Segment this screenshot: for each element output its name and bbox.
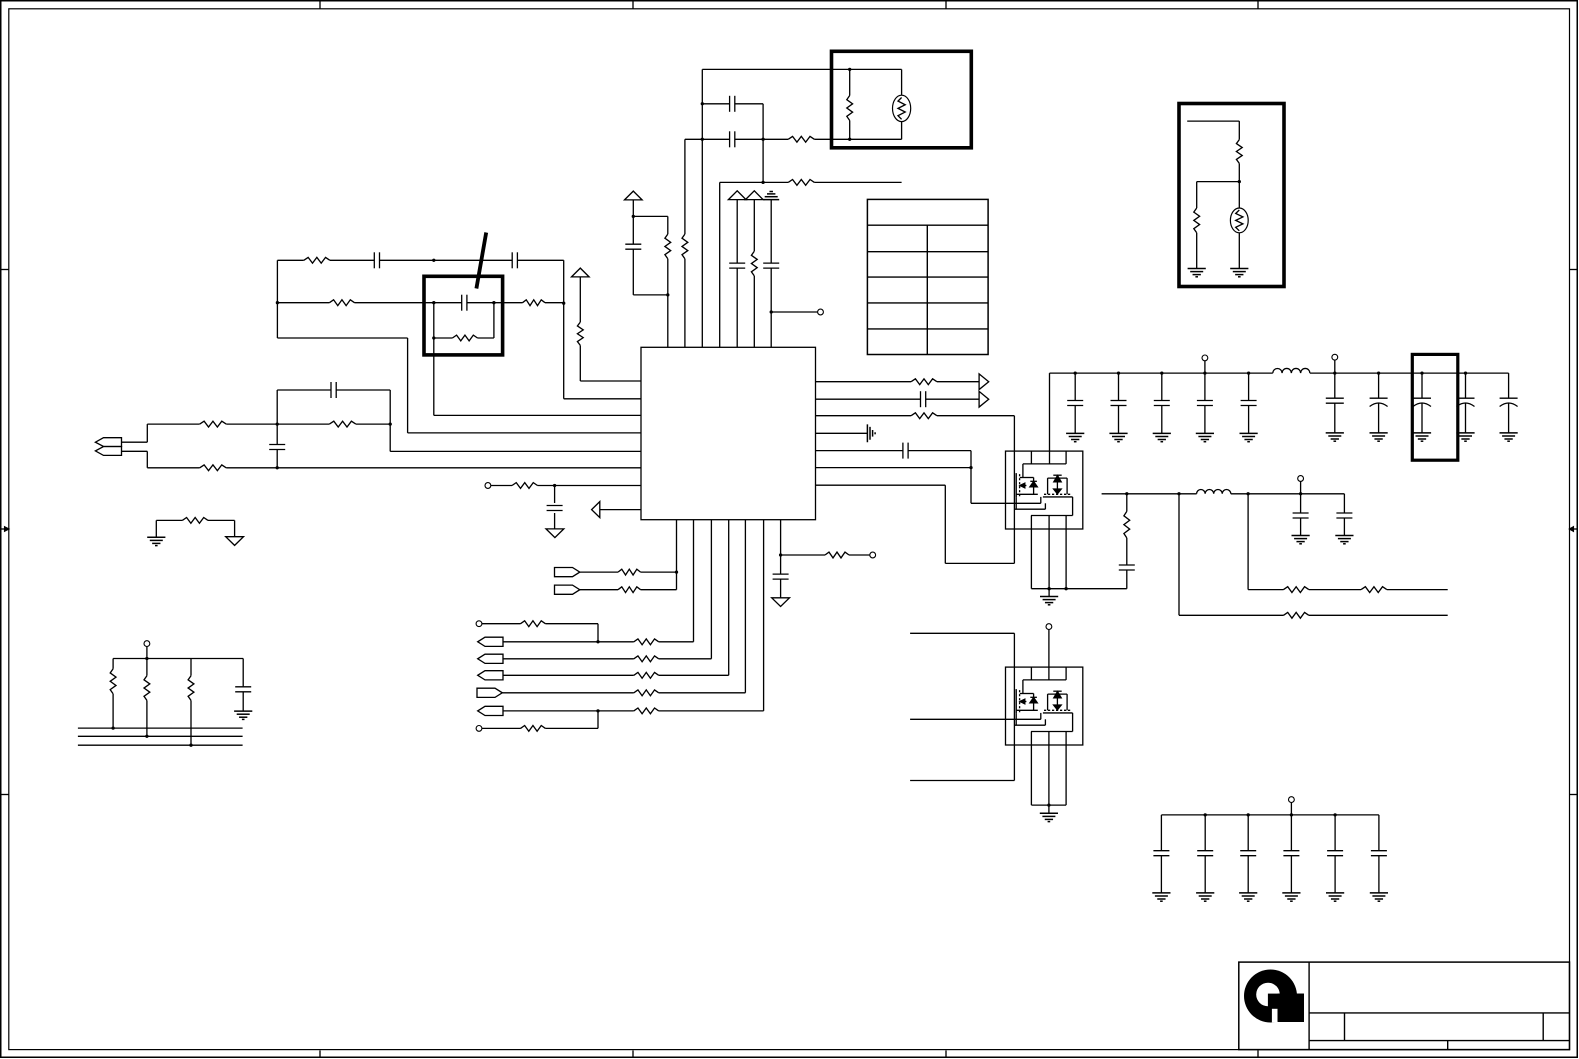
terminal TP2 <box>485 483 491 489</box>
wire IC bottom pin 5 <box>744 520 746 693</box>
node bank3-1 junction <box>1247 813 1250 816</box>
resistor R3 <box>763 136 850 142</box>
node AG junction <box>1047 803 1050 806</box>
node AK junction <box>1299 492 1302 495</box>
wire IC right pin 6 <box>816 467 972 469</box>
resistor R7 <box>1236 121 1242 182</box>
capacitor C6 <box>330 252 434 268</box>
capacitor C22 bank1 <box>1154 373 1170 433</box>
node AC junction <box>969 466 972 469</box>
ground G35 <box>1370 893 1388 901</box>
node U junction <box>145 657 148 660</box>
capacitor C10 <box>269 424 285 468</box>
antenna connector J1 <box>95 438 121 456</box>
ground G4 <box>147 537 165 545</box>
power rail 2 <box>1102 493 1197 495</box>
wire <box>910 632 1014 634</box>
wire <box>433 303 435 338</box>
ground G31 <box>1196 893 1214 901</box>
wire <box>633 215 668 217</box>
node bank1-4 junction <box>1247 371 1250 374</box>
node X junction <box>189 744 192 747</box>
ground G34 <box>1326 893 1344 901</box>
node bank3-0 junction <box>1204 813 1207 816</box>
wire IC bottom pin 1 <box>676 520 678 590</box>
wire <box>597 711 599 729</box>
node Q junction <box>276 422 279 425</box>
crystal Y1 <box>893 69 911 139</box>
resistor R8 <box>1194 182 1200 269</box>
wire <box>277 259 303 261</box>
capacitor C44 <box>1327 815 1343 893</box>
node AI junction <box>1177 492 1180 495</box>
wire IC left pin 1 <box>564 398 641 400</box>
signal flag NET1 <box>555 568 580 577</box>
capacitor C2 <box>702 96 763 112</box>
node R junction <box>389 422 392 425</box>
node AB junction <box>779 553 782 556</box>
node L junction <box>562 302 565 305</box>
capacitor C24 bank1 <box>1241 373 1257 433</box>
terminal TP3 <box>144 641 150 647</box>
node Z junction <box>596 640 599 643</box>
capacitor C1 <box>625 216 641 295</box>
highlight box (bold) <box>1412 354 1458 460</box>
capacitor C23 bank1 <box>1197 373 1213 433</box>
ground G2 <box>1188 269 1206 277</box>
wire <box>1187 120 1239 122</box>
resistor R28 <box>502 690 745 696</box>
capacitor C31 bank2 polarized <box>1413 373 1431 433</box>
wire crystal bottom <box>850 138 902 140</box>
signal flag NET7 <box>478 706 503 715</box>
capacitor C34 bank2 polarized <box>1500 373 1518 433</box>
node P junction <box>432 336 435 339</box>
ground G10 <box>1066 433 1084 441</box>
capacitor C11 <box>547 486 563 529</box>
wire crossing 2 <box>1013 633 1015 780</box>
ground G14 <box>1240 433 1258 441</box>
wire IC bottom pin 4 <box>728 520 730 676</box>
resistor R15 <box>277 421 390 427</box>
terminal TP1 <box>771 309 823 315</box>
power rail 3 <box>1161 814 1379 816</box>
resistor R34 <box>1124 494 1130 538</box>
capacitor C41 <box>1197 815 1213 893</box>
ground G8 <box>1040 805 1058 822</box>
capacitor C15 <box>816 443 972 468</box>
node bank1-2 junction <box>1160 371 1163 374</box>
node C junction <box>701 102 704 105</box>
wire <box>597 624 599 642</box>
wire <box>276 390 278 424</box>
terminal TP11 <box>1289 797 1295 815</box>
ground G6 sideways <box>816 424 876 442</box>
resistor R17 <box>491 483 555 489</box>
ground G20 <box>1326 433 1344 441</box>
node AJ junction <box>1246 492 1249 495</box>
resistor R23 <box>580 587 677 593</box>
terminal TP6 <box>870 552 876 558</box>
wire <box>1248 494 1283 590</box>
wire <box>122 424 148 442</box>
ground G12 <box>1153 433 1171 441</box>
wire IC top pin 1 <box>667 295 669 347</box>
resistor R14 <box>147 421 277 427</box>
wire <box>276 260 278 338</box>
wire IC top pin 7 <box>770 312 772 347</box>
MOSFET pair Q3/Q4 block <box>1006 667 1083 745</box>
MOSFET pair Q1/Q2 block <box>1006 451 1083 529</box>
wire IC right pin 7 <box>816 485 1015 563</box>
node A junction <box>632 215 635 218</box>
wire crystal top <box>702 68 901 70</box>
ground G3 <box>1230 269 1248 277</box>
wire <box>277 337 407 339</box>
node K junction <box>432 259 435 262</box>
wire <box>1049 373 1051 464</box>
node bank1-3 junction <box>1203 371 1206 374</box>
gnd flag AGND1 <box>546 529 564 538</box>
wire IC left pin 0 <box>580 380 641 382</box>
node bank3-3 junction <box>1333 813 1336 816</box>
capacitor C17 <box>1293 494 1309 536</box>
resistor R9 <box>304 257 330 263</box>
terminal TP4 <box>476 621 482 627</box>
signal flag NET3 <box>478 637 503 646</box>
ground G22 <box>1456 433 1474 441</box>
gnd flag AGND2 <box>226 537 244 546</box>
resistor R35 <box>1284 612 1448 618</box>
crystal shield box (bold) <box>832 51 972 148</box>
node G junction <box>770 310 773 313</box>
resistor R22 <box>580 569 677 575</box>
resistor R10 <box>277 300 433 306</box>
terminal TP10 <box>1298 476 1304 494</box>
wire IC left pin 4 <box>390 424 641 451</box>
resistor R33 <box>816 413 1015 419</box>
wire <box>389 390 391 424</box>
resistor R29 <box>503 708 764 714</box>
inductor L1 <box>1273 368 1310 373</box>
terminal TP8 <box>1332 354 1338 373</box>
signal arrow out 2 <box>979 391 989 407</box>
node F junction <box>761 181 764 184</box>
wire <box>971 468 1041 504</box>
wire <box>910 718 1041 720</box>
wire Q1 drain out 1 <box>1030 516 1032 589</box>
node AA junction <box>596 709 599 712</box>
reference table <box>867 199 988 354</box>
power flag VDD1 <box>625 191 643 216</box>
ground G30 <box>1152 893 1170 901</box>
terminal TP9 <box>1046 624 1052 680</box>
wire IC top pin 4 <box>719 182 721 347</box>
capacitor C7 <box>434 252 564 268</box>
signal flag NET5 <box>478 671 503 680</box>
resistor R18 <box>156 518 234 538</box>
signal flag NET6 <box>477 688 502 697</box>
node AE junction <box>1047 587 1050 590</box>
capacitor C9 <box>277 382 390 398</box>
node AH junction <box>1125 492 1128 495</box>
capacitor C12 <box>235 659 251 712</box>
node AF junction <box>1064 587 1067 590</box>
node bank2-0 junction <box>1377 371 1380 374</box>
power rail 1 <box>1050 372 1273 374</box>
node D junction <box>701 138 704 141</box>
wire <box>633 294 668 296</box>
ground G10 <box>1335 536 1353 544</box>
ground G13 <box>1196 433 1214 441</box>
node W junction <box>145 735 148 738</box>
resistor R6 <box>847 69 853 139</box>
ground G32 <box>1239 893 1257 901</box>
wire IC bottom pin 7 <box>780 520 782 574</box>
annotation slash <box>476 233 486 289</box>
ground G9 <box>1292 536 1310 544</box>
resistor R5 <box>751 251 757 347</box>
oscillator box (bold) <box>1179 104 1284 287</box>
resistor R30 <box>482 726 598 732</box>
bus wire 2 <box>78 735 243 737</box>
resistor R24 <box>482 621 598 627</box>
wire <box>122 451 148 468</box>
resistor R16 <box>147 465 277 471</box>
resistor R26 <box>503 656 711 662</box>
node bank1-0 junction <box>1074 371 1077 374</box>
ground G5 <box>234 711 252 719</box>
resistor R4 <box>763 180 902 186</box>
resistor R13 <box>577 322 583 381</box>
node S junction <box>276 466 279 469</box>
capacitor C5 <box>763 263 779 312</box>
bus wire 1 <box>78 727 243 729</box>
power bus 2 <box>1031 804 1066 806</box>
resistor R31 <box>781 552 870 558</box>
wire Q3 out 2 <box>1048 732 1050 806</box>
right border centre arrow <box>1570 527 1578 531</box>
main IC U1 <box>641 347 816 519</box>
resistor R27 <box>503 672 729 678</box>
wire <box>1179 494 1284 616</box>
node bank1-1 junction <box>1117 371 1120 374</box>
ground G1 flipped <box>763 192 779 264</box>
wire Q3 out 3 <box>1065 732 1067 806</box>
crystal Y2 <box>1230 182 1248 269</box>
capacitor C40 <box>1153 815 1169 893</box>
node bank3-2 junction <box>1290 813 1293 816</box>
resistor R2 <box>682 139 688 347</box>
node N junction <box>432 301 435 304</box>
ground G20 <box>1370 433 1388 441</box>
capacitor C18 <box>1336 494 1352 536</box>
ground G21 <box>1413 433 1431 441</box>
node M junction <box>276 301 279 304</box>
node Y junction <box>675 570 678 573</box>
capacitor C4 <box>729 263 745 347</box>
resistor R11 <box>434 303 494 341</box>
power flag VDD2 <box>728 191 746 263</box>
wire <box>720 181 763 183</box>
power flag VDD3 <box>746 191 764 251</box>
wire Q1 drain out 2 <box>1048 516 1050 589</box>
node AD junction <box>1333 371 1336 374</box>
power bus 1 <box>1031 588 1126 590</box>
wire IC bottom pin 2 <box>693 520 695 642</box>
bus rail top <box>113 647 243 659</box>
resistor R37 <box>1361 587 1448 593</box>
capacitor C3 <box>685 131 763 147</box>
node J junction <box>1238 180 1241 183</box>
resistor R19 <box>110 659 116 729</box>
ground G33 <box>1282 893 1300 901</box>
resistor R1 <box>665 216 671 295</box>
capacitor C32 bank2 polarized <box>1457 373 1475 433</box>
node E junction <box>761 138 764 141</box>
wire IC bottom pin 6 <box>763 520 765 711</box>
wire IC bottom pin 3 <box>710 520 712 659</box>
resistor R12 <box>494 300 564 306</box>
signal arrow in <box>592 502 641 518</box>
wire IC left pin 3 <box>408 338 641 433</box>
node I junction <box>848 138 851 141</box>
capacitor C45 <box>1371 815 1387 893</box>
wire IC left pin 2 <box>434 338 641 415</box>
logo <box>1244 970 1304 1023</box>
node V junction <box>111 726 114 729</box>
capacitor C14 <box>816 391 980 407</box>
wire <box>563 260 565 399</box>
node H junction <box>848 68 851 71</box>
terminal TP7 <box>1202 355 1208 373</box>
inductor L2 <box>1197 490 1231 494</box>
power flag VDD4 <box>572 268 590 322</box>
capacitor C42 <box>1240 815 1256 893</box>
capacitor C16 <box>1119 538 1135 589</box>
signal arrow out 1 <box>979 374 989 390</box>
ground G11 <box>1109 433 1127 441</box>
node B junction <box>666 293 669 296</box>
wire Q3 out 1 <box>1030 732 1032 806</box>
capacitor C13 <box>773 574 789 598</box>
signal flag NET4 <box>478 654 503 663</box>
wire <box>762 104 764 183</box>
wire IC left pin 6 <box>555 485 641 487</box>
node bank2-1 junction <box>1420 371 1423 374</box>
wire IC top pin 3 <box>701 69 703 347</box>
capacitor C43 <box>1283 815 1299 893</box>
resistor R20 <box>144 659 150 737</box>
node O junction <box>492 301 495 304</box>
resistor R25 <box>503 639 694 645</box>
gnd flag AGND3 <box>772 598 790 607</box>
matching box (bold) <box>424 276 503 355</box>
wire IC left pin 5 <box>277 467 641 469</box>
wire <box>1197 181 1240 183</box>
left border centre arrow <box>1 527 9 531</box>
power rail 1b <box>1310 372 1509 374</box>
ground G24 <box>1500 433 1518 441</box>
resistor R36 <box>1284 587 1362 593</box>
signal flag NET2 <box>555 585 580 594</box>
capacitor C30 bank2 polarized <box>1370 373 1388 433</box>
capacitor C20 bank1 <box>1067 373 1083 433</box>
wire Q1 drain out 3 <box>1065 516 1067 589</box>
capacitor C30 bank2 <box>1326 373 1344 433</box>
node T junction <box>553 484 556 487</box>
wire crossing <box>1013 416 1015 564</box>
power rail 2b <box>1231 493 1345 495</box>
wire <box>910 780 1014 782</box>
resistor R21 <box>188 659 194 746</box>
title block <box>1239 962 1570 1050</box>
node bank2-2 junction <box>1464 371 1467 374</box>
capacitor C8 <box>434 295 494 311</box>
ground G7 <box>1040 589 1058 605</box>
capacitor C21 bank1 <box>1111 373 1127 433</box>
terminal TP5 <box>476 726 482 732</box>
resistor R32 <box>816 379 980 385</box>
bus wire 3 <box>78 744 243 746</box>
